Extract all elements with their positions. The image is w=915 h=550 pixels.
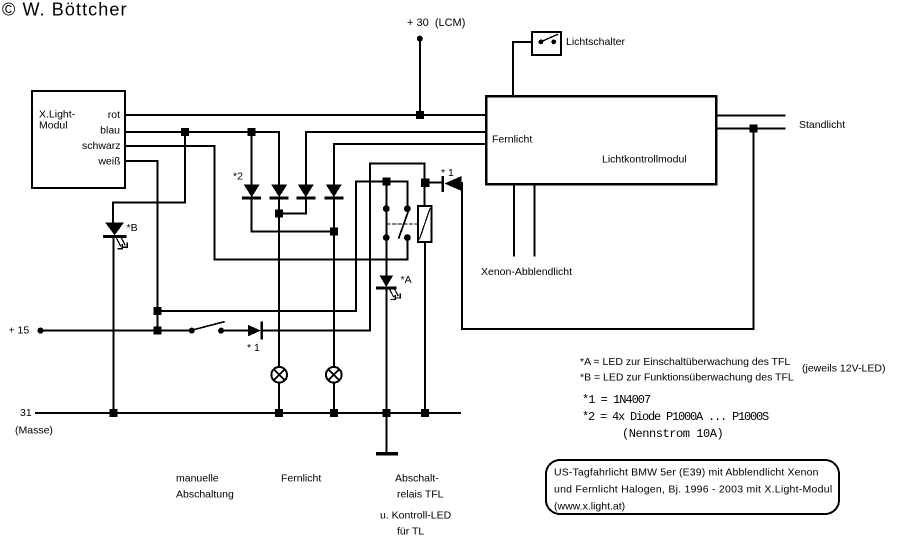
svg-text:*A: *A (401, 274, 412, 286)
relay K1 right pole top wire (406, 182, 408, 209)
junction D1/D4 at y231.5 (330, 228, 338, 236)
wire +30 vertical (419, 39, 421, 115)
LED A cathode bar (377, 287, 395, 290)
junction D2/D3 at y213.5 (275, 210, 283, 218)
diode D4 bar (326, 197, 342, 200)
svg-text:Lichtschalter: Lichtschalter (566, 36, 625, 48)
wire weiss (125, 161, 158, 330)
junction blau at x252 (248, 128, 256, 136)
diode D2 triangle (271, 185, 287, 198)
junction coil top (421, 179, 430, 188)
wire relay contact feed h181 (356, 181, 407, 183)
diode D2 of group *2 : anode wire (278, 132, 280, 185)
LED B light arrows (117, 238, 128, 249)
diode D6 bar (261, 323, 264, 339)
ground bus 31 (36, 412, 460, 414)
switch S2 arm (542, 35, 558, 42)
svg-text:Fernlicht: Fernlicht (281, 473, 321, 485)
diode D3 bar (298, 197, 314, 200)
switch S2 Lichtschalter box (532, 32, 561, 55)
wire coil bottom to ground (424, 242, 426, 413)
junction ground lamp E2 (330, 409, 338, 417)
junction ground LED A (382, 409, 390, 417)
junction ground coil (421, 409, 429, 417)
wire LED A down to ground (385, 289, 387, 413)
wire standlicht out 2 (716, 128, 785, 130)
junction ground LED B (109, 409, 117, 417)
svg-text:*2: *2 (233, 171, 243, 183)
wire standlicht sense loop (462, 129, 754, 330)
diode D5 bar (442, 177, 445, 191)
junction on rot line at +30 (416, 111, 424, 119)
relay K1 left pole wire (385, 182, 387, 276)
diode D4 of group *2 : anode wire (333, 144, 335, 185)
wire schwarz relay link h259 (215, 259, 408, 261)
junction weiss at y311 (154, 307, 162, 315)
svg-text:u. Kontroll-LED: u. Kontroll-LED (380, 510, 452, 522)
diode D2 bar (271, 197, 287, 200)
wire weiss relay link h311 (158, 182, 356, 312)
LED B cathode bar (105, 235, 126, 238)
wire fernlicht feed right y144 (334, 143, 486, 145)
diode D6 *1 on +15 triangle (248, 325, 261, 337)
svg-text:schwarz: schwarz (82, 140, 121, 152)
svg-text:*2 = 4x Diode P1000A ... P100: *2 = 4x Diode P1000A ... P1000S (582, 410, 769, 424)
relay K1 left pole dots (383, 205, 390, 212)
wire schwarz (125, 146, 215, 260)
diode D5 triangle (445, 176, 462, 191)
diode D4 cathode wire down to lamp E2 (333, 200, 335, 368)
lamp E1 cross (274, 369, 285, 380)
wire fernlicht feed left y132 (306, 131, 486, 133)
svg-text:(Masse): (Masse) (15, 425, 53, 437)
wire +15 to switch (41, 330, 192, 332)
svg-text:relais TFL: relais TFL (397, 489, 444, 501)
svg-text:Lichtkontrollmodul: Lichtkontrollmodul (602, 154, 687, 166)
diode D2 cathode wire down to lamp E1 (278, 200, 280, 368)
svg-text:(jeweils 12V-LED): (jeweils 12V-LED) (802, 363, 885, 375)
wire xenon output left (513, 184, 515, 256)
junction standlicht (750, 125, 758, 133)
junction blau at x185 (181, 128, 189, 136)
relay K1 coil box (418, 206, 432, 242)
diode D1 bar (244, 197, 260, 200)
wire rot (125, 114, 486, 116)
svg-text:*B = LED zur Funktionsüberwach: *B = LED zur Funktionsüberwachung des TF… (580, 372, 794, 384)
junction left contact top (382, 178, 390, 186)
wire lamp E2 to ground (333, 383, 335, 413)
wire lamp E1 to ground (278, 383, 280, 413)
svg-text:weiß: weiß (97, 156, 120, 168)
svg-text:Abschalt-: Abschalt- (395, 473, 439, 485)
relay K1 actuator dashed line (387, 223, 418, 225)
diode D4 triangle (326, 185, 342, 198)
svg-text:+ 15: + 15 (9, 325, 30, 337)
svg-text:(Nennstrom 10A): (Nennstrom 10A) (622, 427, 723, 441)
switch S2 dots (539, 40, 544, 45)
relay K1 contact arm (399, 211, 409, 238)
svg-text:blau: blau (100, 125, 120, 137)
svg-text:*B: *B (127, 222, 138, 234)
diode D3 triangle (298, 185, 314, 198)
wire diode D6 to relay coil riser (262, 164, 425, 331)
svg-text:manuelle: manuelle (176, 473, 219, 485)
svg-text:Standlicht: Standlicht (799, 119, 845, 131)
lamp E2 fernlicht right circle (326, 367, 342, 383)
svg-text:rot: rot (108, 109, 120, 121)
wire lichtschalter to LKM (513, 42, 532, 96)
ground earth bar (378, 452, 397, 456)
svg-text:(www.x.light.at): (www.x.light.at) (554, 501, 625, 513)
svg-text:US-Tagfahrlicht BMW 5er (E39): US-Tagfahrlicht BMW 5er (E39) mit Abblen… (554, 467, 819, 479)
title box rounded (546, 460, 839, 514)
LED A wire gap triangle (379, 275, 393, 287)
LED A light arrows (390, 289, 401, 300)
relay K1 right pole bottom wire to h259 (406, 238, 408, 260)
wire blau branch down to LED B (113, 132, 185, 223)
svg-text:* 1: * 1 (441, 167, 454, 179)
svg-text:Abschaltung: Abschaltung (176, 489, 234, 501)
lamp E2 cross (328, 369, 339, 380)
wire LED B down to ground (112, 238, 114, 413)
wire switch to diode D6 (221, 330, 248, 332)
svg-text:© W. Böttcher: © W. Böttcher (2, 0, 128, 20)
switch S1 manual cutoff dots (189, 328, 195, 334)
svg-text:31: 31 (20, 407, 32, 419)
svg-text:Xenon-Abblendlicht: Xenon-Abblendlicht (481, 266, 572, 278)
svg-text:*1 = 1N4007: *1 = 1N4007 (582, 393, 651, 407)
module U1 X.Light-Modul box (32, 91, 125, 188)
svg-text:Fernlicht: Fernlicht (492, 134, 532, 146)
diode D3 of group *2 : anode wire from LKM seg (305, 132, 307, 185)
node +15 terminal dot (38, 328, 44, 334)
svg-text:und Fernlicht Halogen, Bj. 199: und Fernlicht Halogen, Bj. 1996 - 2003 m… (554, 484, 832, 496)
junction ground lamp E1 (275, 409, 283, 417)
relay K1 coil diagonal (420, 209, 431, 240)
svg-text:*A = LED zur Einschaltüberwach: *A = LED zur Einschaltüberwachung des TF… (580, 356, 790, 368)
lamp E1 fernlicht left wire top handled above; lamp circle (271, 367, 287, 383)
LED B triangle (105, 223, 124, 236)
module U2 Lichtkontrollmodul box (486, 96, 716, 184)
svg-text:Modul: Modul (39, 120, 68, 132)
diode D1 triangle (244, 185, 260, 198)
junction weiss at +15 y330 (154, 326, 162, 334)
wire blau (125, 131, 279, 133)
switch S1 arm (193, 322, 225, 330)
wire standlicht out 1 (716, 115, 785, 117)
diode D1 cathode wire to h231 (252, 200, 334, 232)
node +30 terminal dot (417, 36, 423, 42)
svg-text:* 1: * 1 (247, 342, 260, 354)
ground earth stub (385, 413, 387, 453)
diode D1 of group *2 : wire from blau junction (251, 132, 253, 185)
wire xenon output right (534, 184, 536, 256)
svg-text:+ 30 (LCM): + 30 (LCM) (407, 17, 465, 29)
relay K1 right pole dots (404, 205, 411, 212)
wire h213 D3 cathode link (279, 200, 306, 214)
diode D5 *1 wire from coil node (429, 182, 442, 184)
svg-text:für TL: für TL (397, 526, 424, 538)
